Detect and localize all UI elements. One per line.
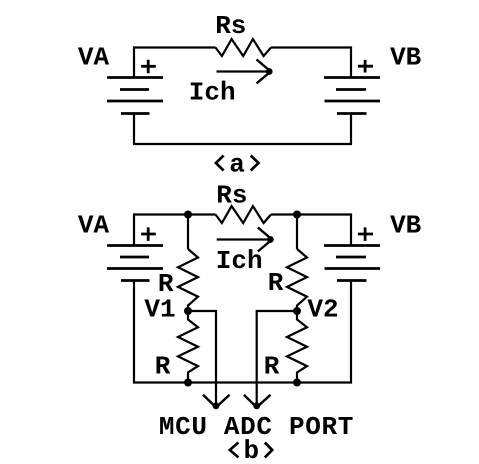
svg-text:Ich: Ich xyxy=(216,246,263,276)
svg-text:R: R xyxy=(264,352,280,382)
resistor Rs (a) xyxy=(216,39,272,56)
svg-text:V1: V1 xyxy=(144,294,175,324)
wire VA top lead (a) xyxy=(133,46,135,77)
node junction bottom-right (b) xyxy=(293,379,301,387)
wire VB bottom lead (b) xyxy=(350,281,352,384)
svg-text:Rs: Rs xyxy=(215,11,246,41)
wire top-right (a) xyxy=(271,46,351,48)
label VB (b) xyxy=(390,211,422,241)
plus sign VA (a) xyxy=(141,60,156,73)
node junction bottom-left (b) xyxy=(184,379,192,387)
wire top-left (b) xyxy=(134,213,216,215)
arrowhead ADC left (b) xyxy=(203,395,230,409)
label (a) xyxy=(216,150,259,180)
current arrow Ich (a) xyxy=(217,59,273,83)
label VB (a) xyxy=(390,43,422,73)
wire VA top lead (b) xyxy=(133,213,135,245)
battery VB (a) xyxy=(324,78,380,114)
label R upper-left (b) xyxy=(158,269,174,299)
label V1 xyxy=(144,294,175,324)
plus sign VA (b) xyxy=(141,227,156,241)
resistor R lower-left (b) xyxy=(178,311,198,383)
node V1 dot xyxy=(184,307,192,315)
svg-text:b: b xyxy=(243,436,259,464)
wire V2 to ADC (b) xyxy=(257,311,297,406)
wire bottom (b) xyxy=(133,381,352,383)
svg-text:VB: VB xyxy=(390,43,422,73)
wire VB top lead (a) xyxy=(350,46,352,77)
label Ich (b) xyxy=(216,246,263,276)
node V2 dot xyxy=(293,307,301,315)
plus sign VB (b) xyxy=(358,227,373,241)
wire top-left (a) xyxy=(134,46,216,48)
svg-text:V2: V2 xyxy=(307,294,338,324)
svg-text:VA: VA xyxy=(78,211,110,241)
wire VB top lead (b) xyxy=(350,213,352,245)
plus sign VB (a) xyxy=(358,60,373,73)
current arrow Ich (b) xyxy=(217,227,274,251)
resistor R upper-left (b) xyxy=(178,249,198,311)
label VA (a) xyxy=(78,43,110,73)
wire top-right (b) xyxy=(271,213,351,215)
battery VA (a) xyxy=(107,78,163,114)
label R lower-right (b) xyxy=(264,352,280,382)
wire upper-right resistor top lead (b) xyxy=(296,215,298,250)
label V2 xyxy=(307,294,338,324)
battery VA (b) xyxy=(107,246,163,281)
label R upper-right (b) xyxy=(268,268,284,298)
label VA (b) xyxy=(78,211,110,241)
resistor R lower-right (b) xyxy=(287,311,307,383)
node junction top-left (b) xyxy=(184,211,192,219)
wire upper-left resistor top lead (b) xyxy=(187,215,189,250)
arrowhead ADC right (b) xyxy=(244,395,271,409)
wire VB bottom lead (a) xyxy=(350,114,352,145)
wire bottom (a) xyxy=(133,143,352,145)
svg-text:VB: VB xyxy=(390,211,422,241)
label Ich (a) xyxy=(189,78,236,108)
svg-text:R: R xyxy=(268,268,284,298)
svg-text:a: a xyxy=(229,150,245,180)
resistor Rs (b) xyxy=(216,206,272,223)
battery VB (b) xyxy=(324,246,380,281)
resistor R upper-right (b) xyxy=(287,249,307,311)
label Rs (a) xyxy=(215,11,246,41)
label MCU ADC PORT xyxy=(159,412,354,442)
wire VA bottom lead (b) xyxy=(133,281,135,384)
wire V1 to ADC (b) xyxy=(188,311,216,406)
label Rs (b) xyxy=(216,181,247,211)
svg-text:R: R xyxy=(155,352,171,382)
label R lower-left (b) xyxy=(155,352,171,382)
svg-text:Ich: Ich xyxy=(189,78,236,108)
node junction top-right (b) xyxy=(293,211,301,219)
wire VA bottom lead (a) xyxy=(133,114,135,145)
svg-text:VA: VA xyxy=(78,43,110,73)
label (b) xyxy=(230,436,272,464)
